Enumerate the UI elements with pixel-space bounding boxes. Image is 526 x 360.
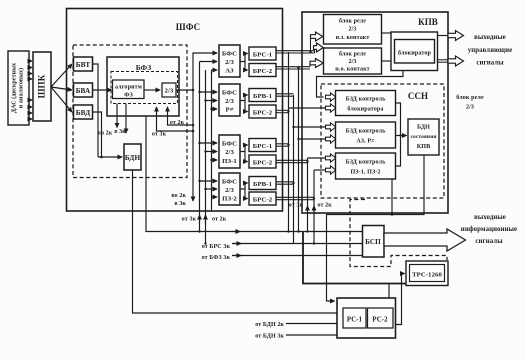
wire БФС ПЗ-2 to БРВ-1/БРС-2 <box>240 183 248 189</box>
wire БЗД3 right elbow to БДН КПВ input <box>396 136 401 167</box>
arrowhead on от БРС 3к line <box>233 243 241 245</box>
svg-text:сигналы: сигналы <box>475 238 503 245</box>
svg-text:состояния: состояния <box>410 134 436 140</box>
wire БФС АЗ to БРС-1/БРС-2 <box>240 54 248 62</box>
svg-text:БРС-2: БРС-2 <box>253 160 273 167</box>
svg-text:2/3: 2/3 <box>165 88 174 95</box>
svg-text:2/3: 2/3 <box>225 98 234 105</box>
svg-text:РС-2: РС-2 <box>372 317 388 324</box>
block РС-2 <box>368 308 394 328</box>
svg-text:от БФЗ 3к: от БФЗ 3к <box>202 255 231 261</box>
wire bus to БЗД3 row1 <box>308 157 326 159</box>
wire алгоритм to 2/3 <box>144 89 160 91</box>
wire up-arrow от 3к into БФЗ <box>157 107 194 131</box>
block 2/3 (in БФЗ) <box>162 83 176 97</box>
block БЗД контроль АЗ, Р≠ <box>336 122 396 148</box>
wire stub down to РС box top <box>388 284 390 299</box>
svg-text:в 3к: в 3к <box>174 201 186 207</box>
hollow arrow into БЗД2 a <box>326 123 336 131</box>
wire БРС-2 g4 double output to bus x=314 <box>276 197 314 199</box>
wire БРС-1 g3 double output <box>276 144 289 146</box>
svg-text:блокиратор: блокиратор <box>398 50 432 57</box>
svg-text:ФЗ: ФЗ <box>124 93 133 99</box>
svg-text:алгоритм: алгоритм <box>115 85 142 91</box>
wire блокиратор double to output arrow 2 <box>438 60 449 62</box>
svg-text:блок реле: блок реле <box>339 18 366 25</box>
dashed inner box of БФЗ <box>111 72 178 104</box>
bus line x=205.5 (от 2к return) <box>205 70 207 244</box>
svg-text:2/3: 2/3 <box>466 105 474 111</box>
svg-text:блокиратора: блокиратора <box>347 106 383 113</box>
svg-text:Р≠: Р≠ <box>226 107 234 114</box>
block РС-1 <box>343 308 366 328</box>
wire РС to ТРС-1260 <box>396 274 405 325</box>
block БФС 2/3 ПЗ-1 <box>219 135 240 168</box>
block ТРС-1260 (double border) <box>406 261 448 286</box>
junction dot <box>309 51 311 53</box>
bus line x=288.5 <box>288 52 290 232</box>
hollow output arrow 2 (управляющие) <box>448 56 464 66</box>
block БФЗ <box>107 57 179 116</box>
wire блокиратор bottom to БЗД контроль блокиратора <box>317 71 404 98</box>
wire БРС-2 g3 double output to bus x=307.5 <box>276 160 308 162</box>
hollow input arrow to блок реле н.о. (lower) <box>310 59 323 68</box>
block блок реле 2/3 н.з. контакт <box>324 15 382 45</box>
svg-text:РС-1: РС-1 <box>347 317 363 324</box>
dashed box around БСП <box>350 200 447 267</box>
arrowhead on от БФЗ 3к line <box>233 255 241 257</box>
svg-text:ШФС: ШФС <box>176 22 200 32</box>
up arrowhead on bus x=307.5 <box>307 206 309 214</box>
wire bus to БЗД2 row2 <box>299 138 326 140</box>
svg-text:2/3: 2/3 <box>225 59 234 66</box>
svg-text:от 2к: от 2к <box>170 120 185 126</box>
hollow input arrow to блок реле н.з. <box>311 32 323 41</box>
wire БРС-2 g2 double output to bus x=288.5 <box>276 110 289 112</box>
svg-text:БРВ-1: БРВ-1 <box>253 93 272 100</box>
hollow arrow into БЗД3 a <box>326 154 336 162</box>
block БДН <box>124 144 141 170</box>
svg-text:выходные: выходные <box>474 34 506 41</box>
svg-text:БРС-1: БРС-1 <box>253 143 273 150</box>
svg-text:от 2к: от 2к <box>212 217 227 223</box>
svg-text:ПЗ-2: ПЗ-2 <box>222 196 237 203</box>
up arrowhead on x=199.5 <box>199 215 201 224</box>
svg-text:БФС: БФС <box>222 179 237 186</box>
wire БДН to РС (long bottom run) <box>133 170 338 313</box>
svg-text:АЗ, Р≠: АЗ, Р≠ <box>356 139 375 145</box>
dashed inner box of ШФС <box>73 45 187 178</box>
stub wires into БФС group 3 <box>200 142 218 144</box>
svg-text:ШПК: ШПК <box>37 74 47 98</box>
dashed box ССН <box>321 84 444 198</box>
wire 2/3 output to bus <box>176 53 217 90</box>
block РС (outer) <box>337 298 396 338</box>
wire БРС-1 g1 double output to КПВ arrows <box>276 37 315 54</box>
junction dots on bottom lines <box>198 230 200 232</box>
wire БДН КПВ output down-left-down to РС <box>327 155 425 301</box>
wire bus to БЗД1 row2 <box>289 107 326 109</box>
block БРС-1 (group 1) <box>249 47 276 60</box>
svg-text:БСП: БСП <box>365 238 381 246</box>
bus line x=314 <box>313 170 315 244</box>
block КПВ (outer box) <box>302 12 448 213</box>
svg-text:блок реле: блок реле <box>339 51 366 58</box>
svg-text:БДН: БДН <box>417 125 430 131</box>
svg-text:от 3к: от 3к <box>289 203 304 209</box>
svg-text:БРС-1: БРС-1 <box>253 52 273 59</box>
svg-text:КПВ: КПВ <box>418 17 438 27</box>
block алгоритм ФЗ <box>113 80 145 99</box>
svg-text:во 2к: во 2к <box>171 193 186 199</box>
hollow arrow into БЗД1 a <box>326 93 336 101</box>
arrowhead on y=231.5 line <box>232 231 240 233</box>
thick wire y=283.5 <box>303 232 447 284</box>
svg-text:БЗД контроль: БЗД контроль <box>346 160 387 166</box>
block блокиратор (double border) <box>391 32 438 71</box>
svg-text:БЗД контроль: БЗД контроль <box>346 97 387 103</box>
wire БРВ-1 g2 double output to bus x=293.5 <box>276 94 294 96</box>
bus line x=298.5 <box>298 68 300 232</box>
svg-text:2/3: 2/3 <box>349 59 357 65</box>
svg-text:от 3к: от 3к <box>182 217 197 223</box>
block БРВ-1 (group 2) <box>249 89 276 102</box>
bus line x=199.5 (от 3к return) <box>199 62 201 232</box>
wire БРС-2 g1 double output to КПВ arrow 3 <box>276 63 310 69</box>
wire up-arrow от 2к into БФЗ <box>168 107 194 125</box>
svg-text:ПЗ-1: ПЗ-1 <box>222 158 237 165</box>
wire fan ШПК to БВТ <box>51 64 72 87</box>
wire БВТ to БДН (down x=98) <box>93 64 99 157</box>
svg-text:от БРС 3к: от БРС 3к <box>202 244 231 250</box>
junction dots on left buses <box>198 91 200 93</box>
svg-text:АЗ: АЗ <box>225 68 234 75</box>
junction dots on bus x=193 <box>192 89 195 92</box>
hollow big arrow выходные информационные <box>384 229 466 251</box>
junction dot <box>100 156 103 159</box>
block БВД <box>74 105 93 119</box>
wire БЗД3 bottom down to same run <box>391 179 393 215</box>
wire into БДН <box>98 156 122 158</box>
svg-text:и аналоговых): и аналоговых) <box>18 68 25 108</box>
svg-text:сигналы: сигналы <box>476 60 504 67</box>
block БСП <box>363 226 385 258</box>
block блок реле 2/3 н.о. контакт <box>324 48 382 74</box>
svg-text:информационные: информационные <box>461 226 517 233</box>
block БДН состояния КПВ <box>408 119 439 155</box>
block БРС-1 (group 3) <box>249 139 276 152</box>
svg-text:в 3к: в 3к <box>114 129 126 135</box>
up arrowhead on x=205.5 <box>205 215 207 224</box>
bus line x=293.5 <box>293 95 295 244</box>
wire блок реле н.з. to блокиратор <box>382 32 392 34</box>
svg-text:БФС: БФС <box>222 141 237 148</box>
up arrowhead on bus x=314 <box>313 206 315 214</box>
wire блок реле н.о. to блокиратор <box>382 60 392 62</box>
svg-text:БРВ-1: БРВ-1 <box>253 181 272 188</box>
hollow arrow into БЗД2 b <box>326 135 336 143</box>
junction dot <box>399 134 401 136</box>
bus line x=211.5 <box>211 70 213 211</box>
wire блокиратор to output arrow 1 <box>438 35 449 37</box>
wire от БФЗ 3к to БСП <box>232 255 363 257</box>
block БРС-2 (group 4) <box>249 192 276 205</box>
wire БФС ПЗ-1 to БРС-1/БРС-2 <box>240 145 248 152</box>
wire от БДН 2к to РС <box>286 323 337 325</box>
stub wires into БФС group 4 <box>200 180 218 182</box>
block БРС-2 (group 3) <box>249 155 276 168</box>
svg-text:БЗД контроль: БЗД контроль <box>346 129 387 135</box>
wire БРВ-1 g4 double output <box>276 182 294 184</box>
wire down-arrow в 3к from БФЗ <box>125 104 127 134</box>
block БФС 2/3 АЗ <box>219 45 240 77</box>
wire БЗД1 right elbow to БДН КПВ input <box>396 103 401 136</box>
block БФС 2/3 ПЗ-2 <box>219 173 240 205</box>
wire БФЗ down x=146 to horizontal y=231.5 into БСП <box>146 116 363 232</box>
svg-text:н.о. контакт: н.о. контакт <box>335 67 369 73</box>
svg-text:от 3к: от 3к <box>152 132 167 138</box>
hollow arrow into БЗД3 b <box>326 166 336 174</box>
svg-text:КПВ: КПВ <box>417 144 431 150</box>
svg-text:н.з. контакт: н.з. контакт <box>336 35 370 41</box>
block ДАС (дискретных и аналоговых) <box>8 51 29 125</box>
wire down-arrow во 2к from БФЗ <box>116 104 118 128</box>
block ШФС (outer box) <box>67 9 283 212</box>
stub wires into БФС group 1 <box>200 61 218 63</box>
svg-text:блок реле: блок реле <box>456 94 484 101</box>
wire БФС Р≠ to БРВ-1/БРС-2 <box>240 95 248 101</box>
stub wires into БФС group 2 <box>200 91 218 93</box>
hollow input arrow to блок реле н.о. (upper) <box>314 43 324 52</box>
wire БВД to БДН (down x=101.5) <box>93 112 102 157</box>
wire fan ШПК to БВД <box>51 87 72 112</box>
svg-text:2/3: 2/3 <box>225 187 234 194</box>
hollow arrow into БЗД1 b <box>326 104 336 112</box>
wire БЗД2 to БДН КПВ <box>396 135 407 137</box>
svg-text:от БДН 3к: от БДН 3к <box>255 334 284 340</box>
block ШПК <box>33 52 51 121</box>
svg-text:выходные: выходные <box>474 214 506 221</box>
block БЗД контроль ПЗ-1, ПЗ-2 <box>336 153 396 179</box>
block БРС-2 (group 1) <box>249 64 276 77</box>
svg-text:2/3: 2/3 <box>349 27 357 33</box>
block БВТ <box>74 57 93 71</box>
svg-text:ДАС (дискретных: ДАС (дискретных <box>11 63 18 113</box>
svg-text:БРС-2: БРС-2 <box>253 110 273 117</box>
svg-text:2/3: 2/3 <box>225 149 234 156</box>
svg-text:БРС-2: БРС-2 <box>253 197 273 204</box>
block БВА <box>74 83 93 97</box>
svg-text:БДН: БДН <box>125 154 141 162</box>
block БФС 2/3 Р≠ <box>219 84 240 116</box>
svg-text:БВТ: БВТ <box>76 61 91 69</box>
junction dots right bus <box>287 110 289 112</box>
junction dot <box>391 213 393 215</box>
bus line x=307.5 <box>307 158 309 232</box>
svg-text:БРС-2: БРС-2 <box>253 68 273 75</box>
svg-text:ССН: ССН <box>408 91 428 101</box>
hollow output arrow 1 (управляющие) <box>448 31 464 41</box>
svg-text:ТРС-1260: ТРС-1260 <box>412 272 442 279</box>
svg-text:от 2к: от 2к <box>318 203 333 209</box>
wire bus to БЗД3 row2 <box>314 169 326 171</box>
block БРС-2 (group 2) <box>249 105 276 118</box>
wire fan ШПК to БВА <box>51 87 72 90</box>
block БРВ-1 (group 4) <box>249 177 276 190</box>
wire от БРС 3к to БСП <box>232 243 363 245</box>
wire bus to БЗД2 row1 <box>294 126 326 128</box>
svg-text:БВД: БВД <box>76 109 91 117</box>
wire от БДН 3к to РС <box>286 334 337 336</box>
wires: 8 arrows from ДАС to ШПК <box>29 61 32 119</box>
svg-text:БФЗ: БФЗ <box>136 63 152 72</box>
svg-text:БВА: БВА <box>76 87 91 95</box>
svg-text:во 2к: во 2к <box>98 131 113 137</box>
svg-text:ПЗ-1, ПЗ-2: ПЗ-1, ПЗ-2 <box>350 170 380 176</box>
svg-text:управляющие: управляющие <box>468 47 513 54</box>
svg-text:от БДН 2к: от БДН 2к <box>255 322 284 328</box>
wire БВА to БФЗ <box>93 89 112 91</box>
block БЗД контроль блокиратора <box>336 91 396 116</box>
svg-text:БФС: БФС <box>222 51 237 58</box>
svg-text:БФС: БФС <box>222 90 237 97</box>
bus line x=193 lower part with down-arrow во 2к/в 3к <box>192 90 194 201</box>
